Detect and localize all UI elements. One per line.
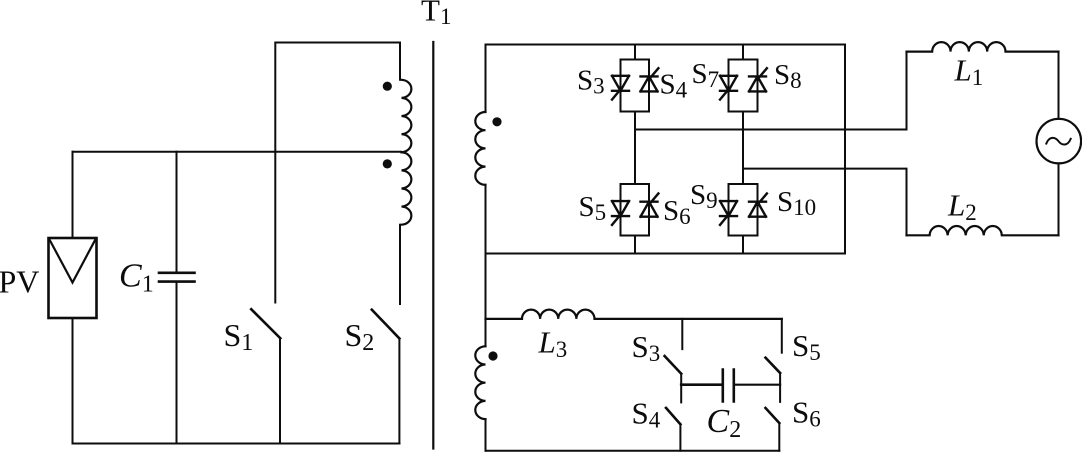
svg-text:L3: L3: [538, 325, 568, 363]
wire: bridge bottom bus: [486, 253, 846, 255]
inductor L3 with line to S5 corner: [486, 310, 782, 319]
bidirectional switch cell S5/S6 box: [621, 184, 650, 236]
svg-text:L1: L1: [954, 53, 984, 91]
switch S5 blade: [766, 358, 781, 373]
svg-text:S5: S5: [579, 191, 607, 225]
PV panel chevron: [50, 239, 96, 282]
thyristor S5: [612, 201, 629, 225]
svg-text:S1: S1: [224, 317, 254, 356]
svg-text:L2: L2: [947, 188, 977, 226]
svg-text:T1: T1: [421, 0, 451, 29]
wire: primary bottom to S2: [399, 225, 401, 304]
switch S3 blade: [665, 356, 682, 374]
wire: cell S9S10 bottom lead: [742, 236, 744, 254]
wire: C1 bottom lead: [176, 283, 178, 444]
wire: secondary top lead: [485, 45, 487, 113]
switch S1 blade: [251, 309, 280, 338]
wire: S1 lower lead: [279, 338, 281, 443]
PV panel PV: [49, 238, 97, 318]
AC source: [1037, 119, 1082, 164]
wire: S6 lower lead: [778, 423, 780, 451]
wire: branch from S7S8 midpoint to L2: [743, 169, 907, 236]
wire: cell S3S4 top lead: [634, 45, 636, 60]
wire: S2 lower lead: [398, 339, 400, 444]
transformer T1 core: [432, 42, 434, 449]
wire: bridge right-side vertical: [844, 45, 846, 254]
bidirectional switch cell S7/S8 box: [729, 60, 758, 112]
svg-text:S4: S4: [660, 69, 688, 103]
svg-text:S8: S8: [774, 59, 802, 93]
wire: cell S5S6 bottom lead: [634, 236, 636, 254]
thyristor S3: [612, 76, 629, 100]
wire: C1 top lead: [176, 152, 178, 272]
capacitor C2 plates: [723, 370, 734, 402]
wire: S5 upper lead from L3 line corner: [781, 319, 783, 353]
svg-text:S3: S3: [632, 329, 661, 366]
polarity dot upper secondary: [492, 117, 501, 126]
switch S6 blade: [766, 408, 780, 423]
thyristor S10: [749, 194, 767, 217]
svg-text:C1: C1: [119, 258, 154, 298]
wire: center-tap bus from PV top to transformer: [73, 151, 402, 153]
switch S2 blade: [372, 310, 400, 339]
transformer T1 primary winding upper: [402, 80, 412, 152]
wire: S3 to S4 junction: [680, 374, 682, 403]
switch S4 blade: [666, 408, 680, 424]
svg-text:C2: C2: [707, 403, 742, 443]
wire: S4 lower lead: [679, 424, 681, 450]
capacitor C1 plates: [159, 273, 195, 282]
wire: cell S7S8 top lead: [742, 45, 744, 60]
svg-text:S7: S7: [692, 58, 720, 92]
transformer T1 primary winding lower: [402, 152, 412, 224]
svg-text:S4: S4: [632, 396, 661, 433]
svg-text:S9: S9: [690, 179, 718, 213]
svg-text:S5: S5: [792, 328, 821, 365]
polarity dot lower primary: [383, 159, 392, 168]
wire: S5 to S6 junction: [779, 373, 781, 402]
svg-text:S3: S3: [577, 65, 605, 99]
svg-text:S6: S6: [663, 195, 691, 229]
wire: bottom circuit return bus: [486, 450, 780, 452]
svg-text:S2: S2: [345, 317, 375, 356]
polarity dot lower secondary: [488, 351, 497, 360]
wire: cell S7S8 bottom to cell S9S10 top: [742, 112, 744, 185]
AC source sine symbol: [1046, 138, 1070, 145]
thyristor S4: [641, 68, 659, 91]
svg-text:S10: S10: [777, 186, 816, 220]
wire: cell S3S4 bottom to cell S5S6 top: [634, 112, 636, 185]
inductor L1: [907, 42, 1059, 52]
wire: bridge top bus: [486, 44, 846, 46]
wire: top link from S1 up and over to primary winding top: [275, 43, 400, 303]
thyristor S7: [720, 76, 737, 100]
thyristor S9: [720, 201, 737, 225]
wire: branch from S3S4 midpoint to L1: [635, 52, 907, 130]
thyristor S6: [641, 194, 659, 217]
svg-text:S6: S6: [792, 395, 821, 432]
wire: junction to C2 left plate: [681, 383, 722, 386]
wire: C2 right plate to S5/S6 junction: [734, 384, 780, 386]
wire: secondary middle lead: [485, 185, 487, 346]
wire: S3 upper lead stub: [681, 319, 683, 349]
transformer T1 secondary winding lower: [475, 346, 485, 419]
wire: L1 to AC source: [1058, 52, 1060, 119]
inductor L2: [907, 226, 1059, 235]
wire: bottom return bus: [73, 443, 400, 445]
wire: PV negative lead down: [72, 318, 74, 444]
bidirectional switch cell S3/S4 box: [621, 60, 650, 112]
polarity dot upper primary: [383, 82, 392, 91]
svg-text:PV: PV: [0, 263, 39, 299]
bidirectional switch cell S9/S10 box: [729, 184, 758, 236]
wire: AC source to L2: [1058, 163, 1060, 235]
transformer T1 secondary winding upper: [475, 112, 485, 185]
thyristor S8: [749, 68, 767, 91]
wire: secondary bottom lead: [485, 419, 487, 451]
wire: PV positive lead up to bus: [72, 152, 74, 238]
